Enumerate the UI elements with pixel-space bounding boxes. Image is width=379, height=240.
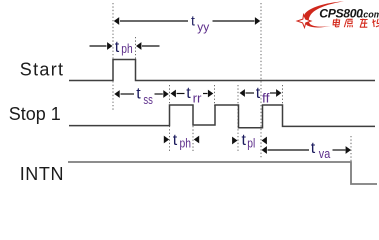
svg-text:ff: ff [262,91,270,106]
logo swoosh [303,1,344,27]
logo chinese char zai [360,19,368,28]
svg-text:t: t [173,132,178,149]
dashed extension line at x=135.5 (Start falling edge) [135,37,137,60]
dimension t_ss arrow [114,90,168,98]
svg-text:Stop 1: Stop 1 [9,104,61,124]
logo chinese char dian [333,19,340,27]
svg-text:t: t [242,132,247,149]
waveform INTN [68,162,377,184]
dimension t_pl arrows [232,137,267,145]
svg-text:t: t [311,140,316,157]
dashed extension line at x=169.5 (Stop1 pulse1 rising edge) [169,85,171,151]
dashed extension line at x=193 (Stop1 pulse1 falling edge) [192,126,194,151]
svg-text:ss: ss [143,92,153,107]
svg-text:ph: ph [121,41,132,56]
dashed extension line at x=113 (Start rising edge) [112,3,114,110]
svg-text:t: t [191,12,195,28]
dashed extension line at x=238 (Stop1 pulse2 falling edge) [237,85,239,152]
dashed extension line at x=261 (Stop1 pulse3 rising edge) [260,3,262,158]
svg-text:t: t [115,39,120,56]
logo chinese char xian [372,19,379,27]
label t_pl [242,132,256,151]
svg-text:yy: yy [197,20,209,34]
svg-text:t: t [256,85,261,102]
dimension t_va arrow [262,146,352,154]
logo chinese char yuan [344,19,352,27]
dimension t_rr arrow [171,90,214,98]
svg-text:t: t [186,85,191,102]
svg-text:pl: pl [247,136,255,151]
dimension t_yy arrow [114,17,260,25]
waveform Start [69,60,375,81]
logo star [297,15,311,28]
dimension t_ff arrow [240,89,282,97]
svg-text:Start: Start [20,59,65,79]
waveform Stop 1 [69,105,375,128]
label t_ph (bottom) [173,132,191,151]
dimension t_ph (top) arrows [90,42,160,50]
label t_yy [191,12,209,34]
label t_ss [136,86,153,108]
dashed extension line at x=282.5 (Stop1 pulse3 falling edge) [282,85,284,106]
dashed extension line at x=351 (INTN falling edge) [350,136,352,162]
label t_ph (top) [115,39,133,56]
svg-text:rr: rr [193,91,203,106]
svg-text:va: va [319,146,331,161]
dashed extension line at x=214.5 (Stop1 pulse2 rising edge) [214,85,216,106]
svg-text:.com: .com [361,9,379,19]
label t_va [311,140,331,161]
svg-text:t: t [136,86,141,103]
label t_ff [256,85,270,106]
dimension t_ph (bottom) arrows [164,136,199,144]
svg-text:CPS800: CPS800 [319,6,363,20]
svg-text:INTN: INTN [20,164,64,184]
svg-text:ph: ph [180,136,192,151]
label t_rr [186,85,202,106]
